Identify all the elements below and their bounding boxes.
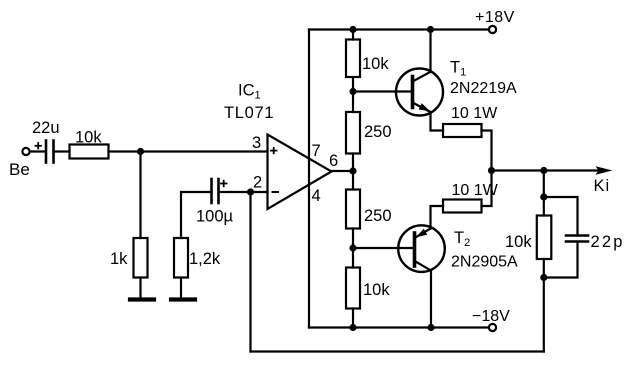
op-amp U1 TL071 [268, 135, 332, 210]
wire node G to C3 [544, 197, 578, 235]
wire 1,2k to ground [180, 278, 182, 299]
terminal +18V [489, 26, 496, 33]
svg-text:1k: 1k [110, 250, 128, 268]
svg-text:250: 250 [364, 207, 392, 225]
wire output line to Ki [492, 169, 600, 171]
wire -18V rail [309, 326, 489, 328]
wire C2 to op-amp pin 2 [219, 191, 268, 193]
resistor 10k (input) [70, 145, 109, 159]
node rail / T2 collector [427, 324, 434, 331]
svg-text:7: 7 [312, 142, 321, 160]
wire node D to T2 base [353, 247, 413, 249]
svg-text:10k: 10k [75, 129, 102, 147]
wire node A down to R2 [139, 152, 141, 239]
svg-text:3: 3 [252, 134, 261, 152]
svg-text:Be: Be [9, 160, 30, 179]
svg-text:10k: 10k [363, 281, 390, 299]
resistor 1,2k [174, 238, 188, 278]
resistor 10k (upper chain) [346, 40, 360, 78]
wire R3 to node C [352, 77, 354, 92]
resistor 10 1W (upper) [443, 124, 482, 137]
node rail / T1 collector [427, 26, 434, 33]
resistor 10 1W (lower) [443, 200, 482, 213]
input terminal Be [22, 148, 29, 155]
wire R9 to node H [543, 259, 545, 278]
wire feedback return bottom [251, 350, 544, 352]
resistor 1k [134, 238, 148, 278]
node rail / chain bottom [349, 324, 356, 331]
svg-text:10 1W: 10 1W [452, 182, 499, 199]
wire C1 to R1 [54, 150, 70, 152]
wire +18V rail [309, 28, 489, 30]
node E (output junction upper) [488, 167, 495, 174]
node rail / chain top [349, 26, 356, 33]
node G (feedback pair top) [540, 193, 547, 200]
svg-text:IC1: IC1 [238, 82, 261, 102]
svg-text:−18V: −18V [472, 308, 510, 325]
wire T2 collector to -18V rail [430, 271, 432, 328]
wire C3 to node H [544, 243, 578, 278]
svg-text:TL071: TL071 [224, 104, 274, 122]
svg-text:1,2k: 1,2k [189, 250, 221, 268]
node B (inverting input / feedback) [247, 188, 254, 195]
node output to driver chain [349, 167, 356, 174]
wire node C to R4 [352, 92, 354, 113]
wire node F down to feedback pair [543, 171, 545, 198]
ground (under 1k) [130, 297, 154, 301]
wire R6 to -18V rail [352, 309, 354, 328]
wire R2 to ground [139, 278, 141, 299]
resistor 10k (lower chain) [346, 268, 360, 309]
wire feedback return up to node B [249, 192, 251, 352]
wire input terminal to C1 [30, 150, 45, 152]
wire R4 to output node [352, 154, 354, 172]
svg-text:2: 2 [253, 174, 262, 192]
svg-text:22u: 22u [32, 119, 60, 137]
svg-text:100µ: 100µ [196, 208, 234, 226]
svg-text:22p: 22p [591, 233, 625, 251]
resistor 250 (lower) [346, 190, 360, 229]
ground (under 1,2k) [171, 297, 195, 301]
wire 1,2k up to C2 [181, 192, 211, 238]
wire node G to R9 [543, 197, 545, 216]
svg-text:T1: T1 [450, 59, 466, 79]
arrow Ki output [596, 166, 613, 174]
polarity + of 100u [221, 181, 227, 186]
svg-text:10k: 10k [505, 233, 532, 251]
svg-text:250: 250 [364, 123, 392, 141]
node A (input divider) [137, 148, 144, 155]
svg-text:10 1W: 10 1W [451, 105, 498, 122]
capacitor 22p [566, 236, 588, 242]
terminal -18V [489, 324, 496, 331]
svg-text:4: 4 [312, 187, 321, 205]
wire node H down to feedback return [543, 278, 545, 352]
wire output node to R5 [352, 171, 354, 190]
capacitor 100u [212, 179, 219, 203]
resistor 250 (upper) [346, 112, 360, 154]
svg-text:Ki: Ki [594, 177, 611, 195]
wire rail to R3 [352, 30, 354, 40]
wire T1 collector to rail [429, 30, 431, 72]
wire supply line pins 7-4 [308, 30, 310, 328]
op-amp + input mark [271, 148, 277, 153]
transistor Q1 2N2219A [396, 69, 443, 116]
polarity + of 22u [36, 143, 42, 149]
svg-text:2N2905A: 2N2905A [451, 254, 518, 271]
node F (feedback takeoff) [540, 167, 547, 174]
wire R7 to output node E [482, 131, 492, 171]
wire node D to R6 [352, 248, 354, 268]
wire R1 to op-amp pin 3 [109, 150, 268, 152]
wire node E down to R8 [482, 171, 492, 207]
capacitor 22u [46, 141, 54, 163]
transistor Q2 2N2905A [398, 225, 445, 272]
wire R8 to T2 emitter [431, 206, 444, 229]
svg-text:6: 6 [329, 152, 338, 170]
node D (T2 base) [349, 244, 356, 251]
svg-text:2N2219A: 2N2219A [450, 80, 517, 97]
op-amp - input mark [273, 191, 279, 193]
wire op-amp output pin 6 [332, 170, 354, 172]
svg-text:+18V: +18V [475, 9, 515, 26]
node H (feedback pair bottom) [540, 274, 547, 281]
wire node C to T1 base [353, 90, 411, 92]
resistor 10k (feedback) [537, 216, 552, 260]
wire R5 to node D [352, 229, 354, 249]
svg-text:T2: T2 [454, 229, 470, 249]
svg-text:10k: 10k [362, 55, 389, 73]
node C (T1 base) [349, 88, 356, 95]
wire T1 emitter to R7 [431, 112, 444, 131]
